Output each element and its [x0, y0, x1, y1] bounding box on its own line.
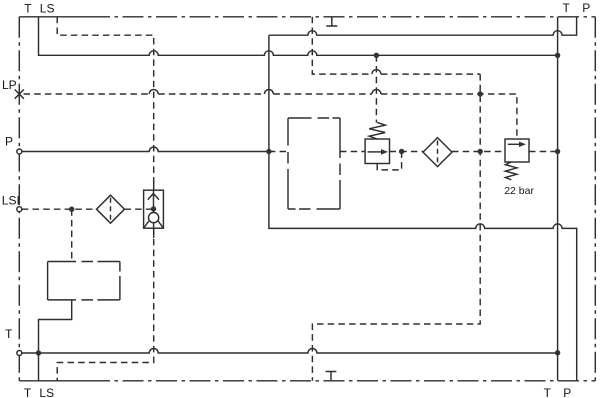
- svg-text:T: T: [24, 2, 32, 16]
- svg-text:LS: LS: [40, 2, 55, 16]
- svg-text:22 bar: 22 bar: [504, 185, 534, 197]
- svg-text:T: T: [24, 386, 32, 398]
- svg-text:LS: LS: [39, 386, 54, 398]
- svg-text:T: T: [563, 1, 571, 15]
- svg-text:P: P: [563, 386, 571, 398]
- svg-text:P: P: [5, 135, 13, 149]
- svg-text:T: T: [5, 327, 13, 341]
- svg-text:LSI: LSI: [2, 193, 20, 207]
- svg-text:T: T: [544, 386, 552, 398]
- svg-text:P: P: [582, 1, 590, 15]
- svg-text:LP: LP: [2, 78, 17, 92]
